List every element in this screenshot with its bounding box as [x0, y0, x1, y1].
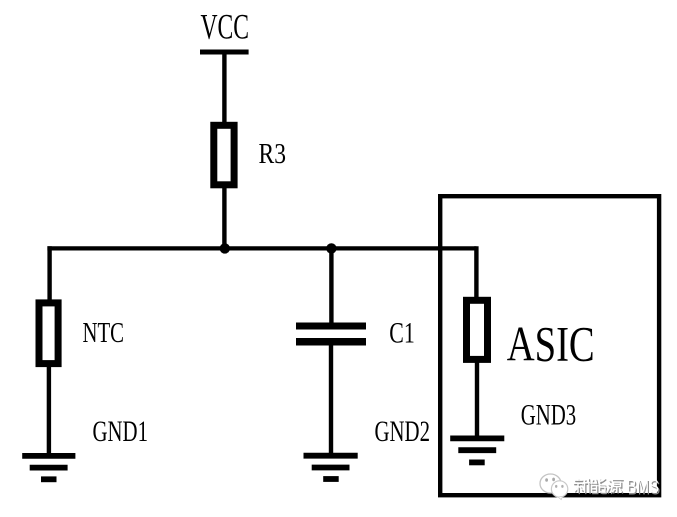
svg-text:GND2: GND2	[375, 416, 431, 448]
ground GND3	[450, 438, 504, 462]
resistor NTC	[39, 303, 58, 364]
svg-text:ASIC: ASIC	[507, 317, 595, 372]
wire NTC to GND1	[47, 363, 51, 456]
svg-text:R3: R3	[259, 138, 287, 170]
resistor R3	[214, 125, 234, 185]
ground GND2	[304, 456, 358, 479]
wire node to NTC	[47, 246, 51, 303]
node A junction dot	[220, 243, 230, 253]
watermark text 新能源BMS	[574, 476, 661, 500]
node B junction dot	[326, 243, 336, 253]
wire main horizontal net	[47, 246, 476, 250]
op-amp U1 ASIC box outline	[440, 196, 659, 495]
svg-text:BMS: BMS	[627, 476, 660, 498]
svg-text:C1: C1	[389, 317, 415, 349]
wire node B to C1	[329, 248, 333, 326]
wire C1 to GND2	[329, 342, 333, 456]
wire VCC to R3	[222, 52, 226, 126]
wire ASIC resistor to GND3	[475, 360, 479, 438]
capacitor C1	[296, 326, 366, 342]
svg-text:GND1: GND1	[93, 416, 149, 448]
svg-text:NTC: NTC	[83, 317, 125, 349]
svg-text:GND3: GND3	[521, 400, 577, 432]
wire R3 to node A	[222, 184, 226, 248]
wire into ASIC box	[474, 246, 478, 301]
watermark logo bubbles	[540, 474, 568, 500]
resistor ASIC internal	[467, 300, 488, 359]
svg-text:VCC: VCC	[201, 7, 250, 47]
VCC power bar	[200, 50, 249, 55]
ground GND1	[22, 456, 75, 479]
